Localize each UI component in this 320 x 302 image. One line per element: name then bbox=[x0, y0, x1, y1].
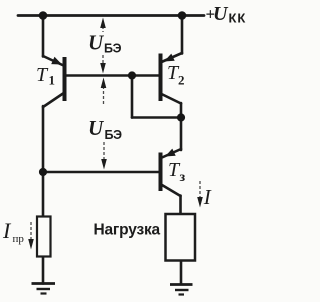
svg-text:пр: пр bbox=[13, 233, 25, 245]
svg-text:БЭ: БЭ bbox=[105, 128, 123, 142]
svg-text:U: U bbox=[213, 3, 229, 25]
svg-text:I: I bbox=[203, 185, 212, 209]
svg-text:T: T bbox=[36, 64, 49, 86]
svg-text:КК: КК bbox=[229, 11, 247, 26]
svg-text:з: з bbox=[180, 170, 186, 185]
svg-text:I: I bbox=[2, 218, 12, 243]
svg-text:2: 2 bbox=[178, 73, 185, 88]
svg-text:1: 1 bbox=[49, 73, 56, 88]
svg-text:БЭ: БЭ bbox=[104, 42, 122, 56]
svg-text:Нагрузка: Нагрузка bbox=[94, 222, 161, 239]
svg-text:U: U bbox=[88, 116, 105, 140]
svg-text:U: U bbox=[88, 31, 105, 55]
